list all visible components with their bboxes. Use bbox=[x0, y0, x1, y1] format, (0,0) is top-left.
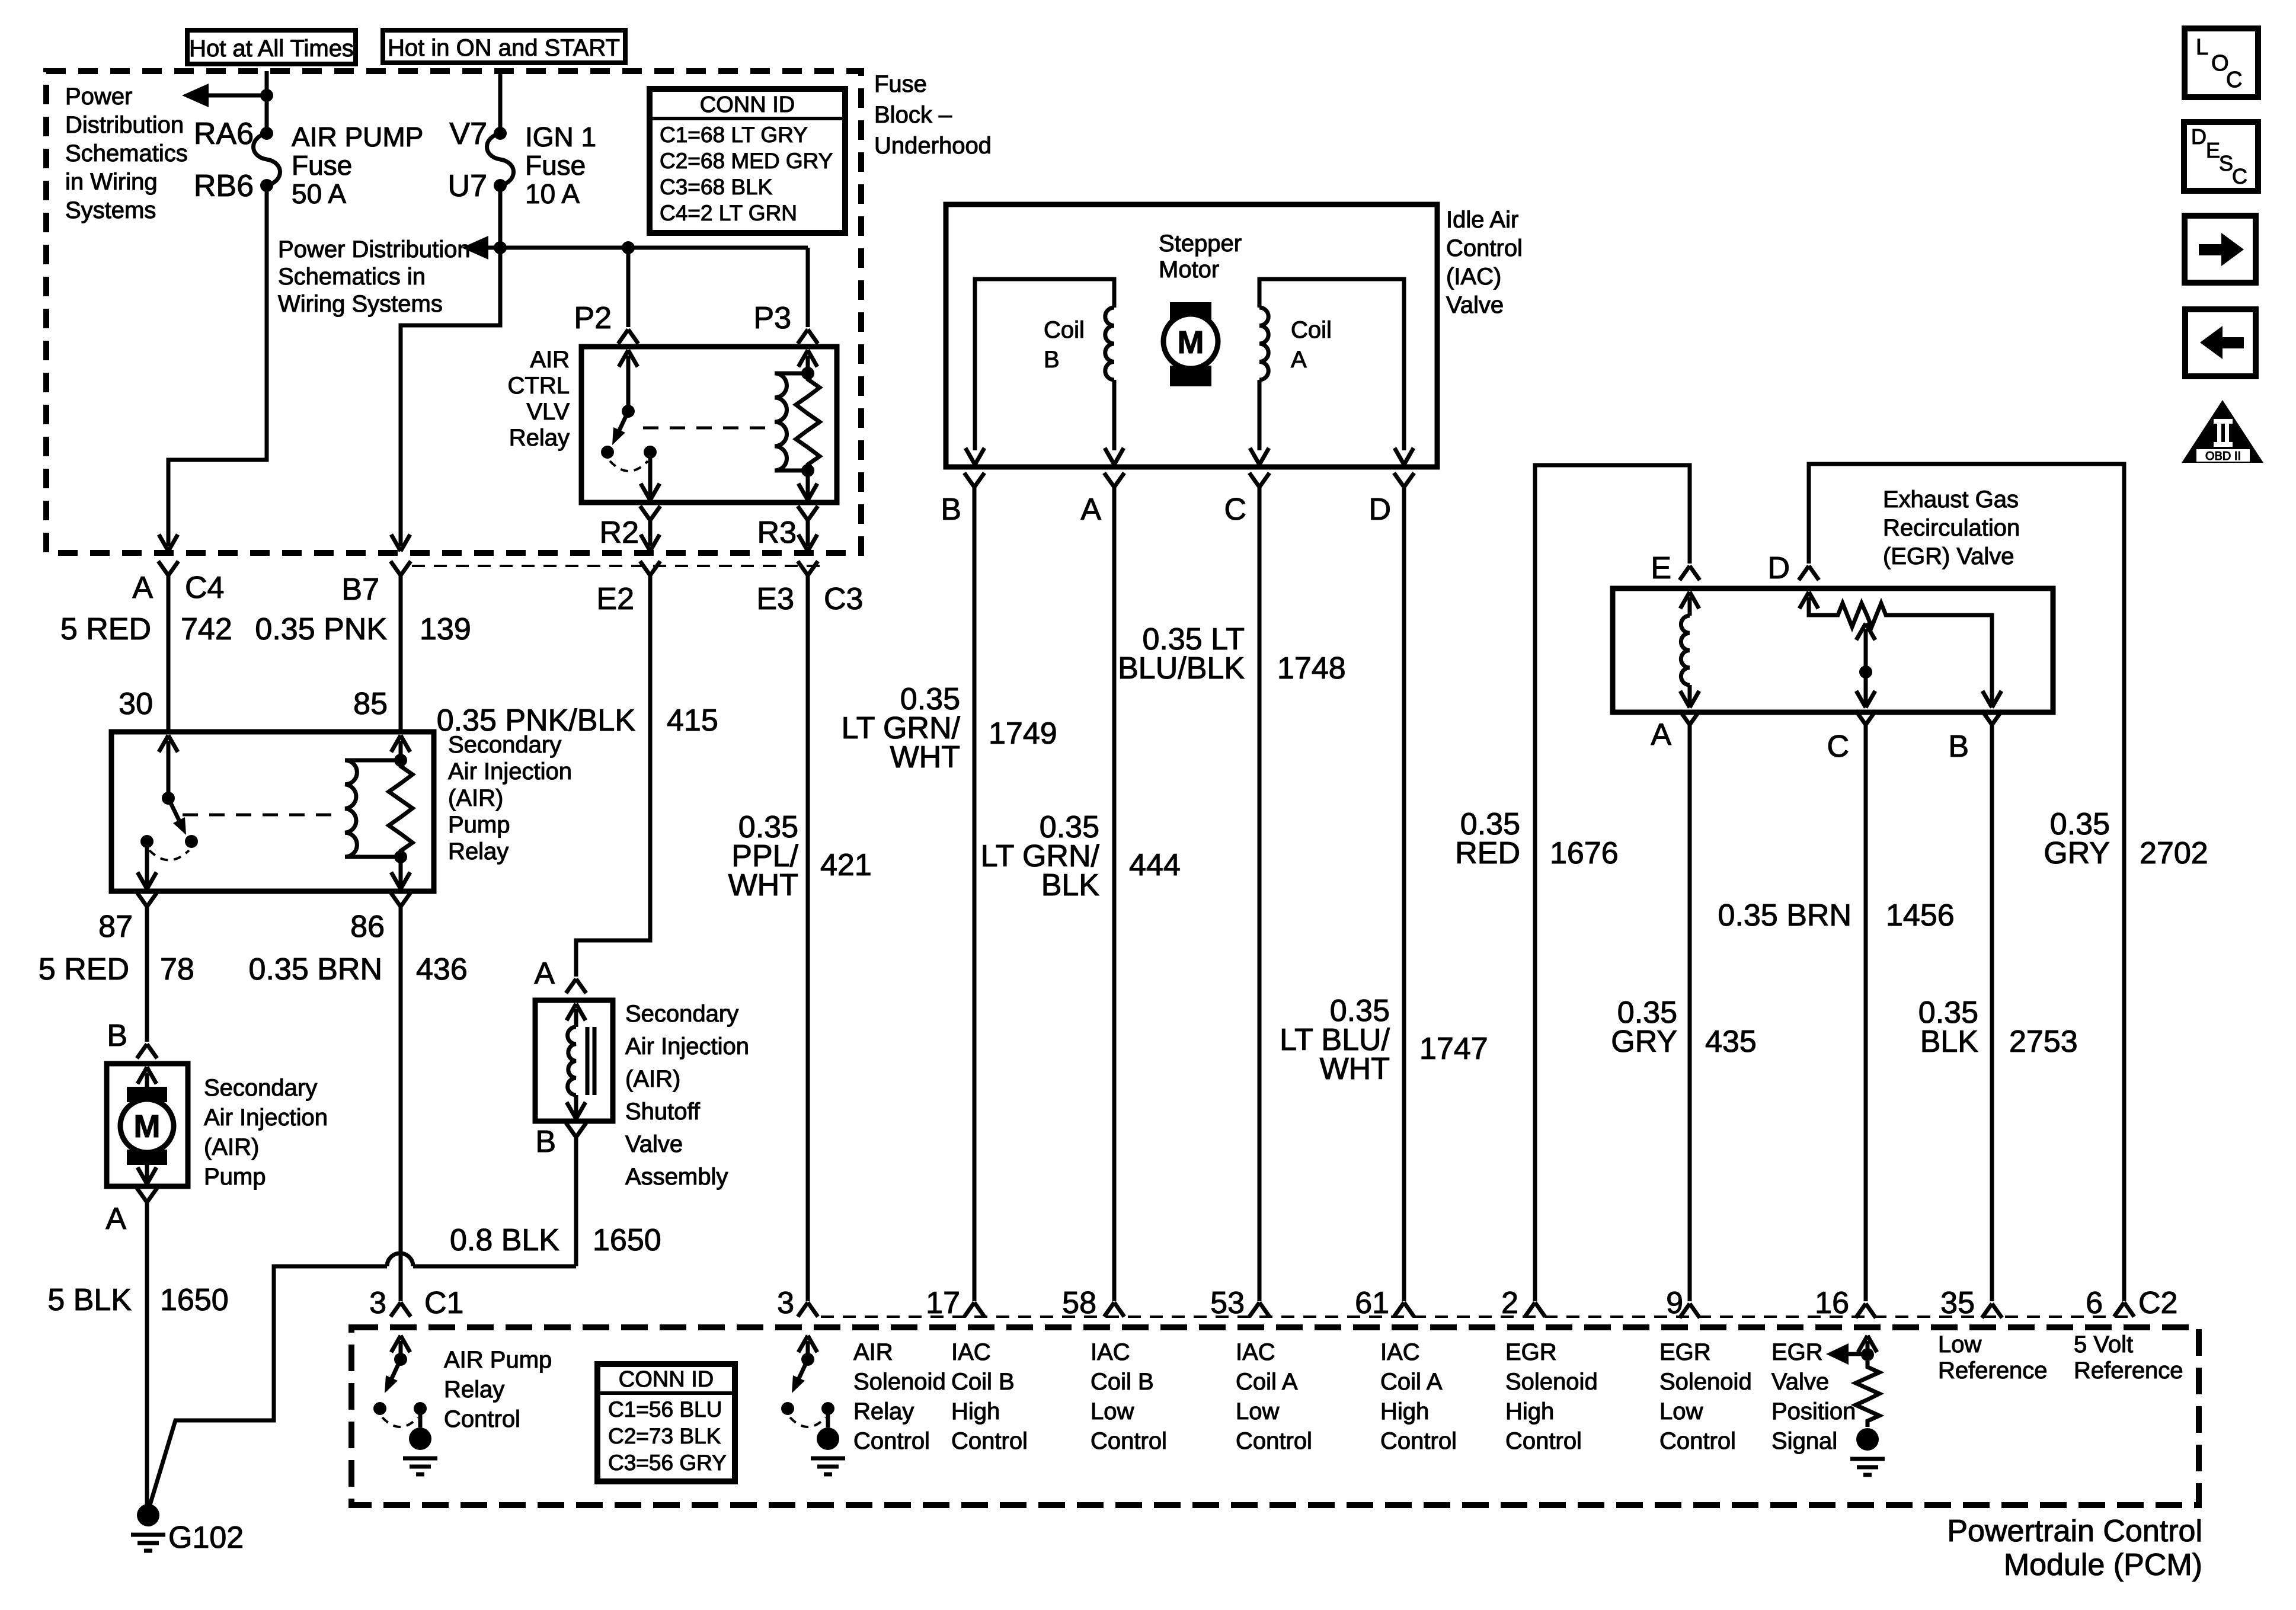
fuse IGN 1 10 A bbox=[487, 133, 514, 185]
driver switch arm bbox=[799, 1359, 808, 1378]
CONN ID table (PCM) bbox=[597, 1364, 735, 1481]
svg-text:Control: Control bbox=[1505, 1428, 1582, 1454]
svg-text:Systems: Systems bbox=[65, 197, 156, 223]
svg-text:Power: Power bbox=[65, 84, 132, 110]
svg-text:C1=56 BLU: C1=56 BLU bbox=[608, 1397, 722, 1422]
relay coil drive dashed link bbox=[183, 814, 332, 817]
svg-text:B: B bbox=[107, 1019, 127, 1053]
PCM input arrow (pin 16) bbox=[1858, 1336, 1877, 1352]
connector pin 87 bbox=[137, 892, 157, 907]
svg-text:1650: 1650 bbox=[160, 1283, 229, 1317]
wire 0.8 BLK 1650 to ground with hop over wire 436 bbox=[413, 1265, 576, 1269]
driver contact travel arc bbox=[790, 1417, 826, 1427]
svg-text:Coil A: Coil A bbox=[1380, 1369, 1443, 1395]
svg-text:Valve: Valve bbox=[625, 1131, 683, 1157]
svg-text:E: E bbox=[1651, 551, 1671, 585]
svg-text:9: 9 bbox=[1666, 1286, 1683, 1320]
connector interface dashed line (fuse block) bbox=[412, 565, 824, 567]
wire 139 0.35 PNK bbox=[399, 575, 403, 732]
connector PCM pin 16 bbox=[1856, 1304, 1876, 1318]
relay switch arm bbox=[619, 411, 628, 430]
svg-text:139: 139 bbox=[420, 612, 471, 646]
svg-text:6: 6 bbox=[2086, 1286, 2103, 1320]
svg-text:5 Volt: 5 Volt bbox=[2074, 1331, 2133, 1358]
svg-text:EGR: EGR bbox=[1771, 1339, 1823, 1365]
connector PCM pin 2 bbox=[1525, 1302, 1545, 1317]
icon box arrow left bbox=[2185, 309, 2256, 376]
svg-text:GRY: GRY bbox=[2044, 836, 2110, 870]
relay suppression resistor bbox=[796, 373, 820, 470]
svg-text:(AIR): (AIR) bbox=[204, 1134, 259, 1160]
relay coil feed arrow (pin 85) bbox=[391, 735, 410, 752]
relay coil feed arrow bbox=[798, 350, 817, 367]
connector pin 86 bbox=[391, 892, 411, 907]
svg-text:Distribution: Distribution bbox=[65, 112, 184, 138]
terminal U7 bbox=[494, 179, 507, 192]
solenoid winding bbox=[568, 1027, 576, 1095]
solenoid core bar bbox=[593, 1027, 597, 1095]
svg-text:Control: Control bbox=[1236, 1428, 1312, 1454]
wire 742 5 RED bbox=[167, 575, 171, 732]
relay coil drive dashed link bbox=[643, 427, 770, 430]
svg-text:P2: P2 bbox=[574, 301, 612, 335]
svg-text:CTRL: CTRL bbox=[508, 373, 570, 399]
svg-text:AIR: AIR bbox=[853, 1339, 893, 1365]
svg-text:VLV: VLV bbox=[526, 399, 570, 425]
svg-text:C2=73 BLK: C2=73 BLK bbox=[608, 1424, 721, 1448]
svg-text:5 RED: 5 RED bbox=[60, 612, 151, 646]
junction node on IGN feed bbox=[494, 241, 507, 254]
svg-text:B: B bbox=[1948, 729, 1969, 764]
relay switch common arrow (pin 30) bbox=[159, 735, 178, 752]
svg-text:C3: C3 bbox=[824, 582, 863, 616]
relay coil bottom node bbox=[394, 850, 407, 863]
svg-text:Solenoid: Solenoid bbox=[1505, 1369, 1598, 1395]
connector PCM (IAC D) bbox=[1394, 1302, 1414, 1317]
wire to relay terminal P2 bbox=[626, 248, 631, 327]
driver switch pivot bbox=[394, 1353, 407, 1366]
relay coil winding bbox=[345, 758, 401, 763]
svg-text:435: 435 bbox=[1705, 1025, 1757, 1059]
svg-text:in Wiring: in Wiring bbox=[65, 169, 158, 195]
svg-text:Reference: Reference bbox=[2074, 1358, 2183, 1384]
connector IAC terminal D bbox=[1394, 473, 1414, 487]
fuse AIR PUMP 50 A bbox=[254, 133, 280, 185]
exhaust gas recirculation valve box bbox=[1613, 588, 2053, 712]
svg-text:B: B bbox=[535, 1125, 556, 1159]
PCM driver arrow (pin 3) bbox=[391, 1336, 410, 1352]
driver switch pivot bbox=[801, 1353, 814, 1366]
svg-text:C: C bbox=[2226, 68, 2242, 92]
wiper junction node bbox=[1859, 665, 1872, 678]
svg-text:(EGR) Valve: (EGR) Valve bbox=[1883, 543, 2014, 569]
svg-text:EGR: EGR bbox=[1659, 1339, 1711, 1365]
svg-text:P3: P3 bbox=[753, 301, 791, 335]
svg-text:Solenoid: Solenoid bbox=[1659, 1369, 1752, 1395]
svg-text:WHT: WHT bbox=[890, 740, 960, 774]
powertrain control module dashed boundary bbox=[351, 1327, 2199, 1505]
header box Hot at All Times bbox=[187, 30, 356, 64]
svg-text:E3: E3 bbox=[756, 582, 794, 616]
connector EGR terminal D bbox=[1799, 566, 1819, 580]
driver contact bbox=[821, 1402, 834, 1415]
svg-text:Recirculation: Recirculation bbox=[1883, 515, 2020, 541]
connector R3 bbox=[798, 506, 818, 520]
svg-text:C1: C1 bbox=[424, 1286, 463, 1320]
relay coil bottom node bbox=[801, 464, 814, 477]
svg-text:Coil A: Coil A bbox=[1236, 1369, 1298, 1395]
wire coil to pin 86 bbox=[399, 857, 403, 886]
motor feed arrow bbox=[137, 1067, 156, 1084]
svg-text:Power Distribution: Power Distribution bbox=[278, 236, 471, 263]
svg-text:B: B bbox=[1044, 347, 1060, 373]
svg-text:C3=56 GRY: C3=56 GRY bbox=[608, 1451, 727, 1475]
ground (PCM pin 16) bbox=[1856, 1428, 1879, 1451]
wire driver to ground bbox=[418, 1409, 423, 1427]
svg-text:D: D bbox=[1368, 492, 1391, 527]
svg-text:5 RED: 5 RED bbox=[39, 952, 129, 987]
EGR position sensor potentiometer bbox=[1799, 592, 1818, 609]
svg-text:IAC: IAC bbox=[951, 1339, 991, 1365]
svg-text:Air Injection: Air Injection bbox=[204, 1105, 328, 1131]
svg-text:444: 444 bbox=[1129, 848, 1181, 882]
svg-text:421: 421 bbox=[820, 848, 872, 882]
wire hot feed to IGN 1 fuse bbox=[498, 71, 503, 133]
internal signal arrow bbox=[1846, 1352, 1868, 1356]
svg-text:Stepper: Stepper bbox=[1159, 231, 1242, 257]
svg-text:A: A bbox=[105, 1202, 126, 1236]
relay coil top node bbox=[394, 754, 407, 767]
svg-text:Coil B: Coil B bbox=[951, 1369, 1015, 1395]
wire 1676 0.35 RED (pin 2 to EGR E) bbox=[1535, 465, 1690, 1301]
svg-text:OBD II: OBD II bbox=[2205, 450, 2241, 463]
svg-text:Coil: Coil bbox=[1044, 317, 1085, 343]
svg-text:C: C bbox=[1827, 729, 1849, 764]
svg-text:Wiring Systems: Wiring Systems bbox=[278, 291, 443, 317]
relay suppression resistor bbox=[389, 760, 412, 857]
svg-text:EGR: EGR bbox=[1505, 1339, 1557, 1365]
svg-text:0.35 BRN: 0.35 BRN bbox=[249, 952, 382, 987]
relay AIR CTRL VLV box bbox=[581, 347, 837, 502]
svg-text:M: M bbox=[134, 1109, 161, 1144]
connector IAC terminal C bbox=[1249, 473, 1269, 487]
svg-text:IAC: IAC bbox=[1380, 1339, 1420, 1365]
relay contact travel arc bbox=[610, 461, 648, 471]
solenoid AIR shutoff valve assembly box bbox=[535, 1000, 613, 1121]
svg-text:0.35 BRN: 0.35 BRN bbox=[1718, 898, 1851, 933]
connector pin 3 (C2) bbox=[798, 1302, 818, 1317]
driver contact bbox=[414, 1402, 427, 1415]
solenoid core bar bbox=[586, 1027, 590, 1095]
svg-text:Hot at All Times: Hot at All Times bbox=[189, 36, 354, 62]
wire 1650 0.8 BLK bbox=[574, 1137, 578, 1266]
svg-text:Pump: Pump bbox=[448, 812, 510, 838]
svg-text:CONN ID: CONN ID bbox=[619, 1367, 714, 1392]
connector PCM pin 35 bbox=[1982, 1304, 2002, 1318]
svg-text:R2: R2 bbox=[600, 516, 639, 550]
wire to relay terminal P3 bbox=[806, 248, 810, 327]
svg-text:5 BLK: 5 BLK bbox=[47, 1283, 132, 1317]
svg-text:415: 415 bbox=[667, 703, 718, 738]
IAC stepper motor bbox=[1170, 302, 1211, 323]
wire arrow branch to power distribution bbox=[182, 84, 209, 107]
svg-text:Position: Position bbox=[1771, 1398, 1856, 1425]
svg-text:E: E bbox=[2206, 138, 2220, 162]
svg-text:E2: E2 bbox=[596, 582, 634, 616]
solenoid feed arrow bbox=[567, 1004, 586, 1020]
svg-text:Secondary: Secondary bbox=[625, 1001, 738, 1027]
terminal RA6 bbox=[260, 127, 273, 140]
relay switch pivot bbox=[162, 792, 175, 805]
svg-text:86: 86 bbox=[350, 910, 385, 944]
svg-text:Control: Control bbox=[1091, 1428, 1167, 1454]
svg-text:Control: Control bbox=[1446, 235, 1523, 261]
svg-text:Control: Control bbox=[853, 1428, 930, 1454]
wire 2702 0.35 GRY (EGR D to pin 6) bbox=[1809, 464, 2124, 1301]
svg-text:IGN 1: IGN 1 bbox=[525, 121, 596, 152]
svg-text:R3: R3 bbox=[757, 516, 797, 550]
svg-text:742: 742 bbox=[181, 612, 232, 646]
svg-text:436: 436 bbox=[416, 952, 468, 987]
PCM pull-up resistor bbox=[1856, 1361, 1879, 1427]
svg-text:0.35 PNK: 0.35 PNK bbox=[255, 612, 387, 646]
svg-text:WHT: WHT bbox=[1320, 1052, 1390, 1086]
svg-text:Module (PCM): Module (PCM) bbox=[2004, 1548, 2202, 1582]
svg-text:Hot in ON and START: Hot in ON and START bbox=[388, 35, 620, 61]
svg-text:Assembly: Assembly bbox=[625, 1164, 728, 1190]
svg-text:1747: 1747 bbox=[1419, 1032, 1488, 1066]
svg-text:B7: B7 bbox=[341, 572, 379, 607]
terminal RB6 bbox=[260, 179, 273, 192]
svg-text:Control: Control bbox=[444, 1406, 520, 1432]
svg-text:Exhaust Gas: Exhaust Gas bbox=[1883, 486, 2019, 513]
wire 1650 5 BLK to G102 bbox=[145, 1202, 149, 1505]
connector IAC terminal A bbox=[1104, 473, 1124, 487]
svg-text:Air Injection: Air Injection bbox=[448, 758, 572, 785]
EGR potentiometer wiper bbox=[1856, 623, 1875, 640]
svg-text:G102: G102 bbox=[168, 1521, 244, 1555]
icon box DESC bbox=[2184, 122, 2258, 191]
driver contact travel arc bbox=[382, 1417, 418, 1427]
svg-text:Control: Control bbox=[1380, 1428, 1457, 1454]
svg-text:A: A bbox=[1291, 347, 1307, 373]
svg-text:C4: C4 bbox=[185, 571, 224, 605]
connector R2 bbox=[640, 506, 660, 520]
ground G102 bbox=[137, 1504, 159, 1526]
svg-text:BLK: BLK bbox=[1920, 1025, 1979, 1059]
svg-text:85: 85 bbox=[353, 687, 388, 721]
svg-text:RA6: RA6 bbox=[194, 117, 254, 151]
svg-text:A: A bbox=[534, 956, 555, 991]
svg-text:1456: 1456 bbox=[1886, 898, 1955, 933]
svg-text:61: 61 bbox=[1355, 1286, 1389, 1320]
motor armature circle bbox=[120, 1099, 174, 1153]
svg-text:Valve: Valve bbox=[1446, 292, 1504, 318]
svg-text:S: S bbox=[2219, 151, 2233, 175]
svg-text:Block –: Block – bbox=[874, 102, 952, 128]
svg-text:AIR: AIR bbox=[530, 347, 570, 373]
svg-text:2: 2 bbox=[1501, 1286, 1518, 1320]
junction node P2 tap bbox=[622, 241, 635, 254]
svg-text:BLU/BLK: BLU/BLK bbox=[1118, 651, 1245, 686]
svg-text:A: A bbox=[132, 571, 153, 605]
wire IAC A to PCM bbox=[1112, 487, 1117, 1301]
svg-text:U7: U7 bbox=[448, 169, 487, 203]
svg-text:Relay: Relay bbox=[509, 425, 570, 451]
svg-text:High: High bbox=[1380, 1398, 1429, 1425]
svg-text:Control: Control bbox=[951, 1428, 1028, 1454]
connector EGR terminal E bbox=[1680, 566, 1700, 580]
svg-text:35: 35 bbox=[1940, 1286, 1975, 1320]
svg-text:87: 87 bbox=[98, 910, 133, 944]
svg-text:B: B bbox=[941, 492, 961, 527]
wire 415 0.35 PNK/BLK bbox=[576, 575, 650, 977]
svg-text:Air Injection: Air Injection bbox=[625, 1033, 749, 1060]
svg-text:3: 3 bbox=[777, 1286, 794, 1320]
wire 421 0.35 PPL/WHT bbox=[806, 575, 810, 1301]
svg-text:M: M bbox=[1178, 325, 1204, 360]
svg-text:CONN ID: CONN ID bbox=[700, 92, 795, 117]
svg-text:L: L bbox=[2196, 35, 2208, 60]
svg-text:High: High bbox=[951, 1398, 1000, 1425]
driver contact bbox=[781, 1402, 794, 1415]
svg-text:Powertrain Control: Powertrain Control bbox=[1947, 1514, 2202, 1548]
svg-text:RB6: RB6 bbox=[194, 169, 254, 203]
svg-text:Coil B: Coil B bbox=[1091, 1369, 1154, 1395]
connector EGR terminal A bbox=[1680, 710, 1700, 725]
connector E3 / C3 bbox=[798, 561, 818, 575]
svg-text:Relay: Relay bbox=[444, 1377, 504, 1403]
svg-text:0.35 PNK/BLK: 0.35 PNK/BLK bbox=[437, 703, 636, 738]
relay secondary AIR pump box bbox=[111, 732, 434, 891]
signal junction node bbox=[1861, 1348, 1874, 1361]
svg-text:Solenoid: Solenoid bbox=[853, 1369, 946, 1395]
wire IAC C to PCM bbox=[1258, 487, 1262, 1301]
connector pin 3 C1 bbox=[391, 1302, 411, 1317]
svg-text:Low: Low bbox=[1236, 1398, 1279, 1425]
connector PCM pin 9 bbox=[1680, 1304, 1700, 1318]
svg-text:C: C bbox=[1224, 492, 1246, 527]
wire relay output to R2 bbox=[648, 452, 653, 498]
svg-text:C1=68 LT GRY: C1=68 LT GRY bbox=[660, 123, 808, 147]
svg-text:1748: 1748 bbox=[1277, 651, 1346, 686]
svg-text:C: C bbox=[2232, 164, 2247, 188]
relay switch pivot bbox=[622, 405, 635, 418]
relay coil winding bbox=[775, 372, 808, 376]
wire hot feed to AIR PUMP fuse bbox=[265, 71, 269, 133]
svg-text:50 A: 50 A bbox=[292, 178, 346, 209]
svg-text:78: 78 bbox=[160, 952, 194, 987]
connector IAC terminal B bbox=[964, 473, 984, 487]
connector B7 bbox=[391, 561, 411, 575]
svg-text:WHT: WHT bbox=[728, 868, 798, 902]
svg-text:High: High bbox=[1505, 1398, 1554, 1425]
relay contact (NO) bbox=[185, 835, 198, 848]
IAC coil A bbox=[1259, 279, 1404, 450]
svg-text:IAC: IAC bbox=[1236, 1339, 1275, 1365]
svg-text:Secondary: Secondary bbox=[204, 1075, 317, 1101]
wire coil to R3 bbox=[806, 470, 810, 498]
svg-text:Low: Low bbox=[1091, 1398, 1134, 1425]
svg-text:16: 16 bbox=[1815, 1286, 1849, 1320]
relay coil top node bbox=[801, 367, 814, 380]
svg-text:Coil: Coil bbox=[1291, 317, 1332, 343]
IAC coil B bbox=[975, 279, 1114, 450]
svg-text:V7: V7 bbox=[449, 117, 487, 151]
svg-text:Low: Low bbox=[1938, 1331, 1981, 1358]
svg-text:Low: Low bbox=[1659, 1398, 1703, 1425]
svg-text:1650: 1650 bbox=[593, 1223, 661, 1257]
connector EGR terminal C bbox=[1856, 710, 1876, 725]
svg-text:AIR PUMP: AIR PUMP bbox=[292, 121, 423, 152]
svg-text:Fuse: Fuse bbox=[525, 150, 586, 181]
svg-text:IAC: IAC bbox=[1091, 1339, 1130, 1365]
fuse block underhood dashed boundary bbox=[46, 71, 861, 553]
wire 1456 0.35 BRN bbox=[1864, 725, 1868, 1301]
svg-text:1749: 1749 bbox=[989, 716, 1057, 751]
svg-text:0.8 BLK: 0.8 BLK bbox=[450, 1223, 559, 1257]
svg-text:D: D bbox=[2191, 124, 2207, 149]
svg-text:A: A bbox=[1080, 492, 1101, 527]
ground (PCM driver) bbox=[817, 1427, 839, 1450]
svg-text:Motor: Motor bbox=[1159, 257, 1219, 283]
connector PCM (IAC C) bbox=[1249, 1302, 1269, 1317]
connector A / C4 bbox=[158, 561, 178, 575]
connector shutoff valve terminal B bbox=[566, 1123, 586, 1137]
relay contact 87 bbox=[140, 835, 154, 848]
svg-text:30: 30 bbox=[119, 687, 153, 721]
svg-text:A: A bbox=[1651, 718, 1671, 752]
ground (PCM driver) bbox=[409, 1427, 431, 1450]
EGR solenoid winding bbox=[1681, 616, 1690, 685]
connector PCM (IAC A) bbox=[1104, 1302, 1124, 1317]
svg-text:C4=2 LT GRN: C4=2 LT GRN bbox=[660, 201, 797, 225]
svg-text:AIR Pump: AIR Pump bbox=[444, 1347, 552, 1373]
header box Hot in ON and START bbox=[383, 30, 625, 63]
svg-text:(AIR): (AIR) bbox=[625, 1066, 680, 1092]
svg-text:Pump: Pump bbox=[204, 1164, 266, 1190]
driver contact bbox=[373, 1402, 386, 1415]
svg-text:Schematics: Schematics bbox=[65, 140, 188, 167]
relay contact (NO) bbox=[644, 446, 657, 459]
svg-text:GRY: GRY bbox=[1611, 1025, 1677, 1059]
svg-text:3: 3 bbox=[369, 1286, 386, 1320]
wire IAC B to PCM bbox=[973, 487, 977, 1301]
PCM driver arrow (solenoid) bbox=[798, 1336, 817, 1352]
svg-text:Relay: Relay bbox=[853, 1398, 914, 1425]
svg-text:RED: RED bbox=[1455, 836, 1520, 870]
svg-text:C2: C2 bbox=[2138, 1286, 2177, 1320]
svg-text:53: 53 bbox=[1210, 1286, 1245, 1320]
svg-text:2702: 2702 bbox=[2140, 836, 2208, 870]
relay contact (NC) bbox=[601, 446, 614, 459]
icon OBD II triangle bbox=[2182, 400, 2263, 463]
svg-text:C3=68 BLK: C3=68 BLK bbox=[660, 175, 773, 199]
motor ground side lead bbox=[145, 1165, 149, 1182]
svg-text:D: D bbox=[1767, 551, 1790, 585]
svg-text:(IAC): (IAC) bbox=[1446, 264, 1501, 290]
svg-text:Valve: Valve bbox=[1771, 1369, 1829, 1395]
wire arrow branch to power distribution (ignition feed) bbox=[462, 236, 488, 260]
svg-text:1676: 1676 bbox=[1550, 836, 1619, 870]
svg-text:Underhood: Underhood bbox=[874, 133, 992, 159]
junction node on AIR PUMP fuse feed bbox=[260, 89, 273, 102]
CONN ID table (fuse block) bbox=[650, 89, 845, 233]
connector interface dashed line (PCM) bbox=[821, 1315, 2134, 1318]
svg-text:Control: Control bbox=[1659, 1428, 1736, 1454]
connector PCM pin 6 bbox=[2114, 1302, 2134, 1317]
svg-text:BLK: BLK bbox=[1041, 868, 1100, 902]
